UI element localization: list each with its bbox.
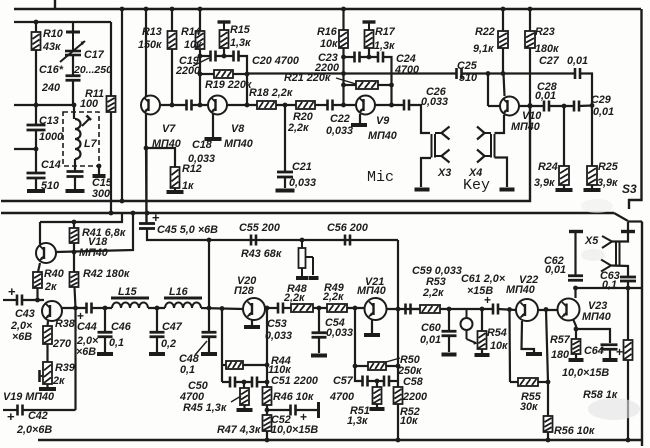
ground under R45: [237, 408, 253, 412]
svg-text:C53: C53: [267, 318, 287, 330]
wire V7 emitter: [145, 114, 147, 148]
svg-text:R39: R39: [55, 362, 75, 374]
wire C42 to riser: [23, 409, 76, 411]
resistor R55: [518, 378, 538, 386]
resistor R50: [368, 362, 386, 370]
svg-text:МП40: МП40: [224, 138, 253, 150]
ground under R24: [556, 188, 573, 192]
resistor R19: [214, 70, 233, 78]
transistor V22: [516, 299, 538, 321]
junction R19 left node: [198, 72, 203, 77]
wire R11 to bus: [110, 112, 112, 213]
junction C23-C24 node: [367, 55, 372, 60]
junction V23 collector node: [573, 286, 578, 291]
capacitor C61: [493, 304, 498, 315]
svg-text:C45 5,0 ×6В: C45 5,0 ×6В: [157, 224, 218, 236]
junction R56 bus node: [546, 438, 551, 443]
junction R23 bottom node: [528, 103, 533, 108]
svg-text:R13: R13: [142, 26, 162, 38]
ground under V8: [205, 137, 222, 141]
junction R18-R20 node: [283, 103, 288, 108]
capacitor C24: [378, 52, 383, 63]
svg-text:3,9к: 3,9к: [534, 177, 555, 189]
ground under C15: [66, 189, 85, 193]
junction node osc B: [72, 103, 77, 108]
connector X4 body: [491, 134, 495, 158]
junction V23 emitter node: [574, 327, 579, 332]
capacitor C27: [575, 68, 580, 79]
wire x398 riser: [397, 240, 399, 309]
svg-text:0,1: 0,1: [602, 279, 617, 291]
wire C14 to ground: [35, 179, 37, 189]
junction R50 left node: [353, 364, 358, 369]
wire C57-C58: [368, 380, 384, 382]
svg-text:R40: R40: [44, 268, 64, 280]
svg-text:L15: L15: [118, 286, 138, 298]
inductor L15: [111, 298, 149, 308]
resistor R14: [196, 31, 205, 49]
wire R54 gnd lead: [481, 349, 483, 353]
inductor L7: [75, 119, 81, 159]
svg-text:C27: C27: [539, 55, 560, 67]
contact X5 upper: [602, 236, 612, 248]
junction R23 top: [528, 7, 533, 12]
svg-text:МП40: МП40: [79, 247, 108, 259]
svg-text:C25: C25: [457, 60, 478, 72]
wire C47 lead: [156, 308, 158, 331]
wire R50 left lead: [355, 365, 368, 367]
capacitor C63: [620, 277, 636, 281]
svg-text:МП40: МП40: [582, 311, 611, 323]
svg-text:V9: V9: [376, 115, 389, 127]
junction R22 bottom node: [501, 71, 506, 76]
junction C23 left node: [341, 55, 346, 60]
wire R56 riser: [546, 310, 548, 417]
svg-text:R57: R57: [550, 334, 571, 346]
svg-text:C57: C57: [333, 375, 354, 387]
svg-text:510: 510: [459, 72, 477, 84]
svg-text:МП40: МП40: [357, 285, 386, 297]
wire R51 lead: [376, 381, 378, 387]
wire right margin: [641, 222, 643, 447]
svg-text:×6В: ×6В: [76, 346, 96, 358]
wire S3 feed: [629, 9, 642, 209]
wire V9 emitter: [359, 114, 361, 123]
wire R55 left lead: [510, 381, 518, 383]
resistor R39: [43, 362, 52, 384]
wire C53 to R48: [283, 307, 291, 309]
wire R24 gnd lead: [563, 185, 565, 188]
wire C16 to node: [72, 80, 74, 105]
ground under V21: [364, 333, 380, 337]
svg-text:R47 4,3к: R47 4,3к: [217, 424, 261, 436]
wire V9 collector to C26: [375, 104, 404, 106]
svg-text:0,033: 0,033: [326, 327, 353, 339]
wire C43 to V19: [22, 299, 44, 301]
ground under C64: [603, 358, 618, 362]
svg-text:Key: Key: [463, 177, 490, 194]
svg-text:R17: R17: [375, 26, 396, 38]
svg-text:250к: 250к: [397, 365, 422, 377]
wire C45 lead: [145, 148, 147, 223]
leader for R21 label: [336, 78, 356, 84]
wire C64 wire: [576, 329, 610, 343]
wire R13 lead: [171, 9, 173, 31]
svg-text:C56 200: C56 200: [327, 222, 368, 234]
capacitor C26: [404, 100, 409, 111]
capacitor C21: [277, 172, 293, 177]
junction riser node: [207, 238, 212, 243]
wire R15 bottom lead: [223, 48, 225, 56]
svg-text:+: +: [300, 410, 307, 424]
wire V18 emitter: [38, 263, 40, 272]
trimmer mark R39: [40, 370, 44, 382]
wire rail y213: [1, 212, 614, 215]
junction R16 top: [341, 7, 346, 12]
capacitor C46: [98, 332, 113, 337]
wire C25 to R22 node: [462, 72, 504, 74]
ground under X4: [500, 188, 515, 192]
svg-text:1,3к: 1,3к: [230, 37, 251, 49]
svg-text:100: 100: [80, 98, 98, 110]
wire R18-R20: [276, 104, 296, 106]
wire R22 lead: [502, 9, 504, 31]
svg-text:C60: C60: [421, 322, 441, 334]
svg-text:МП40: МП40: [368, 130, 397, 142]
svg-text:0,01: 0,01: [593, 106, 614, 118]
wire V21 collector: [386, 308, 437, 310]
svg-text:R56 10к: R56 10к: [554, 425, 595, 437]
resistor R15: [220, 30, 229, 48]
wire C19 wire: [200, 55, 210, 57]
junction V20 base node: [220, 306, 225, 311]
wire V20 emitter: [251, 320, 253, 325]
wire V10 collector: [519, 105, 544, 107]
svg-text:2,2к: 2,2к: [422, 287, 444, 299]
svg-text:2,2к: 2,2к: [283, 292, 305, 304]
svg-text:C44: C44: [77, 321, 97, 333]
wire C54 gnd lead: [318, 338, 320, 353]
connector X5 body: [616, 242, 620, 266]
wire C45 to line: [147, 229, 398, 241]
wire R21 left lead: [344, 84, 357, 86]
ground under R51: [370, 407, 385, 411]
wire C46 lead: [104, 308, 106, 331]
svg-text:R12: R12: [182, 163, 202, 175]
wire node to L7: [73, 105, 75, 119]
svg-text:R10: R10: [43, 28, 63, 40]
junction C46 node: [103, 306, 108, 311]
scan smudge 2: [581, 199, 613, 213]
junction R45 node: [242, 380, 247, 385]
capacitor C52: [291, 405, 296, 416]
capacitor C43: [17, 295, 22, 306]
junction node osc A: [34, 103, 39, 108]
junction C28-C29 node: [562, 104, 567, 109]
contact X4 lower: [477, 150, 491, 163]
svg-text:R15: R15: [230, 24, 251, 36]
wire C29 right: [579, 104, 592, 107]
resistor R12: [171, 167, 180, 188]
ground under V22: [526, 352, 542, 356]
wire C48 gnd lead: [208, 337, 210, 352]
capacitor C20: [234, 51, 239, 62]
junction V7 emitter node: [144, 146, 149, 151]
test jack: [461, 309, 473, 339]
wire riser x209: [208, 240, 210, 308]
junction C27-C29 node: [590, 103, 595, 108]
wire C59 to R53: [411, 308, 421, 310]
junction R13 top: [170, 7, 175, 12]
wire R21 right lead: [378, 84, 392, 86]
resistor R58: [624, 340, 633, 360]
capacitor C62: [568, 276, 583, 281]
svg-text:R43 68к: R43 68к: [241, 248, 282, 260]
ground under R54: [475, 353, 490, 357]
ground under V9: [351, 123, 367, 127]
wire R45 gnd lead: [243, 405, 245, 408]
svg-text:1,3к: 1,3к: [374, 40, 395, 52]
ground under V20: [244, 325, 260, 329]
junction R52 bus node: [396, 438, 401, 443]
svg-text:R54: R54: [487, 327, 507, 339]
svg-text:C43: C43: [15, 308, 35, 320]
svg-text:МП40: МП40: [152, 138, 181, 150]
wire C19-C20: [216, 55, 234, 57]
wire C27 to corner: [580, 74, 592, 106]
svg-text:R21 220к: R21 220к: [284, 72, 331, 84]
svg-text:C47: C47: [162, 321, 183, 333]
wire to C27: [503, 72, 575, 74]
capacitor C55: [251, 235, 256, 246]
resistor R10: [32, 32, 41, 50]
ground under R43: [296, 276, 308, 280]
svg-text:Mic: Mic: [367, 169, 394, 186]
wire filter out: [201, 308, 243, 309]
svg-text:C16*: C16*: [39, 64, 64, 76]
junction V10 collector rail node: [528, 104, 533, 109]
contact X5 lower: [601, 260, 611, 272]
junction V9 collector node: [389, 103, 394, 108]
capacitor C58: [384, 376, 389, 387]
svg-text:C14: C14: [41, 159, 61, 171]
svg-text:1,3к: 1,3к: [347, 415, 368, 427]
svg-text:+: +: [616, 345, 623, 359]
capacitor C23: [355, 52, 360, 63]
wire R54 lead: [481, 309, 483, 331]
ground under R25: [584, 188, 601, 192]
wire X5 top wire: [612, 232, 628, 242]
junction C19 left node: [198, 54, 203, 59]
junction shield corner: [97, 164, 102, 169]
resistor R48: [291, 304, 313, 312]
capacitor C51: [252, 377, 257, 388]
svg-text:C18: C18: [192, 139, 212, 151]
capacitor C56: [345, 235, 350, 246]
leader for R45 label: [231, 396, 241, 402]
resistor R18: [257, 101, 276, 109]
transistor V20: [243, 298, 265, 320]
wire C42 stub: [3, 409, 17, 411]
capacitor C45: [139, 224, 155, 229]
wire V8 collector to R18: [227, 104, 257, 106]
svg-text:П28: П28: [234, 285, 254, 297]
svg-text:300: 300: [92, 188, 110, 200]
junction C61 V22 node: [507, 307, 512, 312]
svg-text:+: +: [7, 409, 15, 424]
wire R14 lead: [199, 9, 201, 31]
wire R48-R49: [313, 307, 327, 309]
wire R14 to node: [199, 49, 201, 105]
resistor R47: [263, 415, 272, 431]
svg-text:R38: R38: [55, 318, 75, 330]
wire R50 right lead: [386, 365, 398, 367]
svg-text:X4: X4: [468, 167, 482, 179]
svg-text:10к: 10к: [400, 415, 418, 427]
junction C47 node: [155, 306, 160, 311]
transistor V19: [42, 301, 62, 321]
capacitor C48: [202, 332, 217, 337]
svg-text:C46: C46: [111, 321, 132, 333]
wire V18 supply line: [40, 212, 122, 222]
svg-text:10к: 10к: [320, 38, 338, 50]
svg-text:R23: R23: [535, 26, 555, 38]
ground shield: [93, 174, 106, 178]
junction R55 right node: [546, 380, 551, 385]
svg-text:R25: R25: [598, 161, 619, 173]
junction riser top: [486, 71, 491, 76]
svg-text:1к: 1к: [182, 180, 194, 192]
wire C50 wire: [222, 381, 230, 383]
wire C44 to filter: [92, 307, 113, 309]
wire C50-C51: [235, 381, 252, 383]
resistor R57: [572, 339, 581, 354]
ground under R43 wiper: [309, 276, 319, 280]
svg-text:X3: X3: [437, 167, 451, 179]
wire shield ground lead: [98, 166, 100, 174]
wire R49 to V21: [347, 307, 365, 309]
wire C13-C14: [35, 131, 37, 172]
capacitor C53: [278, 303, 283, 314]
contact X3 upper: [435, 127, 450, 140]
wire R44 left lead: [222, 364, 226, 366]
wire left tap y149: [14, 148, 36, 150]
junction R10 top: [34, 20, 39, 25]
scan smudge 3: [581, 249, 605, 261]
leader for C19 label: [193, 58, 209, 66]
svg-text:0,1: 0,1: [180, 364, 195, 376]
resistor R42: [70, 272, 79, 287]
svg-text:×6В: ×6В: [12, 331, 32, 343]
wire R10 top lead: [35, 22, 37, 32]
wire C20 to x248: [239, 56, 248, 105]
wire R52 to bus: [397, 404, 399, 440]
wire R22 to V10: [504, 74, 505, 97]
capacitor C54: [312, 333, 327, 338]
capacitor C25: [457, 68, 462, 79]
potentiometer R43: [299, 240, 314, 276]
wire R44 right lead: [243, 364, 267, 366]
wire x222 vertical: [221, 309, 223, 383]
wire R55 left riser: [508, 310, 511, 383]
wire R40 down: [36, 288, 38, 300]
wire V22 emitter: [522, 321, 535, 352]
wire L7 to C15: [74, 159, 76, 171]
ground under C21: [276, 189, 295, 193]
svg-text:МП40: МП40: [506, 284, 535, 296]
wire feed x122: [121, 9, 123, 201]
wire rail y201: [1, 106, 530, 201]
resistor R52: [394, 387, 403, 404]
wire C60 lead: [448, 309, 450, 330]
junction C52 node: [265, 408, 270, 413]
junction R14 top: [198, 7, 203, 12]
wire R51 gnd lead: [376, 404, 378, 407]
wire C43 stub: [3, 299, 17, 301]
switch S3 blade: [614, 213, 628, 221]
wire R19 right lead: [233, 73, 247, 75]
power tap R17 supply: [363, 22, 376, 30]
junction C51 right node: [265, 380, 270, 385]
wire C21 ground lead: [284, 178, 286, 188]
resistor R24: [559, 166, 569, 185]
wire C47 gnd lead: [156, 337, 158, 352]
capacitor C16: [66, 76, 81, 81]
transistor V7: [141, 96, 160, 115]
svg-text:0,1: 0,1: [109, 337, 124, 349]
svg-text:10к: 10к: [490, 340, 508, 352]
junction V23 base node: [544, 307, 549, 312]
wire R23 down: [529, 48, 531, 106]
junction V8 collector node: [245, 103, 250, 108]
wire C17 top lead: [72, 22, 74, 32]
capacitor C57: [363, 376, 368, 387]
svg-text:R42 180к: R42 180к: [83, 268, 130, 280]
svg-text:240: 240: [41, 82, 60, 94]
capacitor C28: [544, 101, 549, 112]
wire R23 lead: [529, 9, 531, 31]
junction V18 base rail node: [131, 211, 136, 216]
resistor R40: [33, 272, 42, 288]
wire V18 base line: [56, 213, 133, 252]
svg-text:2,2к: 2,2к: [287, 122, 309, 134]
wire V7 emitter down: [145, 148, 148, 222]
wiper arrow into R54: [467, 339, 478, 345]
leader for R50 label: [386, 358, 400, 362]
wire V10 base riser: [487, 74, 489, 107]
wire X5 tap stem: [627, 222, 629, 231]
wire filter mid: [148, 307, 165, 309]
svg-text:4700: 4700: [394, 64, 419, 76]
svg-text:0,033: 0,033: [326, 125, 353, 137]
junction V9 base node: [341, 103, 346, 108]
junction R58 bus node: [626, 438, 631, 443]
svg-text:2200: 2200: [175, 65, 200, 77]
wire R41 lead: [73, 222, 75, 228]
capacitor C19: [211, 51, 216, 62]
wire R38-R39: [46, 344, 48, 362]
top edge tick: [54, 0, 56, 8]
wire R41 down: [73, 243, 75, 252]
svg-text:270: 270: [52, 338, 71, 350]
junction x122 bottom: [120, 199, 125, 204]
wire X4 ground side: [495, 158, 508, 188]
ground under C14: [27, 189, 45, 193]
svg-text:C42: C42: [28, 410, 48, 422]
capacitor C50: [230, 377, 235, 388]
wire long line to C25: [247, 72, 456, 74]
contact X3 lower: [435, 150, 450, 163]
